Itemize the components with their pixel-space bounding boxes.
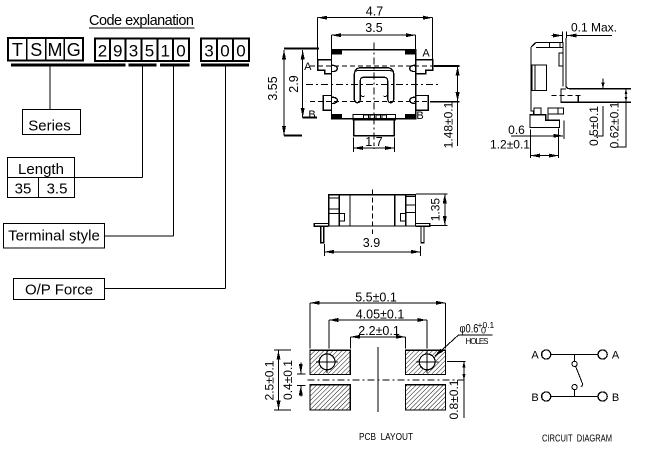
svg-text:4.05±0.1: 4.05±0.1 xyxy=(356,307,405,321)
bent lead vertical xyxy=(566,38,631,89)
wire top A-A xyxy=(551,354,599,356)
dimension 1.48 xyxy=(434,65,460,67)
body xyxy=(329,195,416,226)
svg-text:2.9: 2.9 xyxy=(287,75,301,92)
svg-text:HOLES: HOLES xyxy=(466,337,489,346)
svg-text:0.4±0.1: 0.4±0.1 xyxy=(281,360,295,400)
svg-text:Length: Length xyxy=(18,161,64,178)
svg-text:Series: Series xyxy=(28,118,71,135)
svg-text:B: B xyxy=(416,110,423,122)
svg-text:B: B xyxy=(612,392,619,404)
svg-text:5.5±0.1: 5.5±0.1 xyxy=(355,290,397,304)
circuit diagram xyxy=(531,350,620,445)
svg-text:1.2±0.1: 1.2±0.1 xyxy=(490,138,530,152)
wing right xyxy=(415,224,429,227)
stem xyxy=(354,120,395,136)
contact circle top xyxy=(572,361,577,366)
dimension 0.62 xyxy=(625,89,627,102)
center vertical line xyxy=(377,347,379,412)
terminal circle B left xyxy=(542,392,551,401)
svg-text:0: 0 xyxy=(481,326,486,336)
svg-text:B: B xyxy=(308,109,315,121)
terminal B left xyxy=(323,95,331,110)
svg-text:3.55: 3.55 xyxy=(266,76,280,100)
svg-text:3: 3 xyxy=(129,42,138,61)
corner tab top-right xyxy=(405,50,416,55)
svg-text:A: A xyxy=(304,61,312,73)
svg-text:3.9: 3.9 xyxy=(363,236,380,250)
right block lines xyxy=(394,195,396,226)
svg-text:1.48±0.1: 1.48±0.1 xyxy=(442,101,456,148)
svg-text:5: 5 xyxy=(145,42,154,61)
spring contact top double line xyxy=(356,69,393,72)
code boxes 293510 xyxy=(95,39,189,62)
pad top-right xyxy=(405,350,445,374)
svg-text:2.5±0.1: 2.5±0.1 xyxy=(263,360,277,400)
svg-text:T: T xyxy=(12,40,23,60)
svg-text:0.8±0.1: 0.8±0.1 xyxy=(447,379,461,419)
svg-text:Terminal style: Terminal style xyxy=(8,228,100,245)
terminal A right xyxy=(416,60,433,74)
right detail rects xyxy=(406,196,416,205)
Series box xyxy=(23,110,81,135)
leg left xyxy=(321,226,324,242)
svg-text:2.2±0.1: 2.2±0.1 xyxy=(358,324,400,338)
spring contact outer xyxy=(354,68,394,100)
stem ladder strip xyxy=(353,114,396,119)
connector to Terminal style xyxy=(173,66,175,236)
code boxes TSMG xyxy=(8,38,83,61)
terminal B right xyxy=(416,95,428,110)
left detail rects xyxy=(329,198,340,209)
svg-text:φ0.6: φ0.6 xyxy=(460,324,479,336)
body outline xyxy=(531,43,563,115)
spring inner hook right xyxy=(383,95,387,97)
svg-text:0.5±0.1: 0.5±0.1 xyxy=(587,106,601,146)
dimension 1.35 xyxy=(416,193,448,195)
foot xyxy=(530,115,560,128)
leg right xyxy=(421,226,424,242)
centerline horizontal xyxy=(306,83,441,85)
svg-text:M: M xyxy=(48,40,63,60)
svg-text:3.5: 3.5 xyxy=(365,21,382,35)
hole right xyxy=(419,354,435,370)
dimension 1.7 xyxy=(353,138,355,153)
top tab xyxy=(550,43,561,48)
bottom-left fold xyxy=(534,108,541,115)
svg-text:G: G xyxy=(67,40,81,60)
ladder cell 3 xyxy=(376,115,380,119)
dash line terminal row B xyxy=(310,101,438,103)
Terminal style box xyxy=(4,224,105,249)
svg-text:0: 0 xyxy=(176,42,185,61)
lead block xyxy=(561,89,578,102)
terminal circle A left xyxy=(542,350,551,359)
dimension 0.4 xyxy=(297,373,306,375)
pad top-left xyxy=(310,350,350,374)
svg-text:Code explanation: Code explanation xyxy=(89,13,194,29)
terminal circle A right xyxy=(598,350,607,359)
actuator bump left xyxy=(532,65,547,91)
pcb layout xyxy=(263,290,495,443)
junction stub bottom xyxy=(574,390,576,397)
top view xyxy=(266,5,460,153)
left block lines xyxy=(338,195,340,226)
moving contact arm xyxy=(576,366,583,386)
connector to Series xyxy=(49,66,51,110)
wing left xyxy=(314,224,328,227)
dimension 3.9 xyxy=(324,244,326,256)
svg-text:CIRCUIT DIAGRAM: CIRCUIT DIAGRAM xyxy=(542,433,612,445)
spring foot left xyxy=(354,95,360,103)
centerline vertical xyxy=(373,43,375,150)
svg-text:35: 35 xyxy=(15,181,32,198)
right tab xyxy=(559,53,563,66)
terminal B right bump xyxy=(410,97,416,103)
svg-text:0.1 Max.: 0.1 Max. xyxy=(571,21,617,35)
pad bottom-right xyxy=(405,385,445,410)
corner tab bottom-right xyxy=(405,114,416,119)
Length table xyxy=(8,158,75,198)
ladder cell 2 xyxy=(370,115,374,119)
connector to O/P Force xyxy=(225,66,227,289)
corner tab top-left xyxy=(332,50,343,55)
svg-text:1: 1 xyxy=(160,42,169,61)
dimension 0.5 xyxy=(602,79,604,89)
dimension 3.55 xyxy=(284,48,319,50)
spring foot right xyxy=(388,95,394,103)
svg-text:0.6: 0.6 xyxy=(508,123,525,137)
underlines xyxy=(11,64,126,67)
svg-text:3.5: 3.5 xyxy=(47,181,68,198)
dash line terminal row A xyxy=(310,65,438,67)
svg-text:9: 9 xyxy=(113,42,122,61)
junction stub top xyxy=(574,355,576,362)
svg-text:0: 0 xyxy=(236,42,245,61)
svg-text:2: 2 xyxy=(98,42,107,61)
lead block dash line xyxy=(552,95,582,97)
dimension 0.8 xyxy=(447,360,466,362)
svg-text:PCB LAYOUT: PCB LAYOUT xyxy=(359,431,413,443)
svg-text:1.35: 1.35 xyxy=(428,198,442,222)
body outline xyxy=(332,50,416,119)
front view xyxy=(314,190,447,257)
center dashed line xyxy=(372,190,374,235)
svg-text:A: A xyxy=(422,47,430,59)
center dash-dot line xyxy=(308,379,467,381)
svg-text:4.7: 4.7 xyxy=(366,5,383,19)
terminal A left bump xyxy=(332,65,338,71)
ladder cell 4 xyxy=(382,115,386,119)
code explanation legend xyxy=(4,13,250,300)
terminal A left xyxy=(318,60,331,74)
svg-text:S: S xyxy=(30,40,42,60)
svg-text:O/P Force: O/P Force xyxy=(25,282,93,299)
svg-text:0: 0 xyxy=(220,42,229,61)
svg-text:B: B xyxy=(531,392,538,404)
hole left xyxy=(319,354,335,370)
terminal A right bump xyxy=(410,65,416,71)
terminal circle B right xyxy=(598,392,607,401)
side view xyxy=(490,21,631,159)
connector to Length xyxy=(142,66,144,178)
svg-text:A: A xyxy=(612,350,620,362)
svg-text:1.7: 1.7 xyxy=(365,135,382,149)
leader line to hole xyxy=(435,335,459,356)
corner tab bottom-left xyxy=(332,114,343,119)
ladder cell 1 xyxy=(364,115,369,119)
bottom-right fold xyxy=(548,108,564,114)
lead bottom edge xyxy=(578,101,631,103)
dimension 2.5 xyxy=(274,349,291,351)
spring inner hook left xyxy=(360,95,364,97)
wire bottom B-B xyxy=(551,396,599,398)
dimension 2.9 xyxy=(303,117,317,119)
O/P Force box xyxy=(14,279,105,300)
pad bottom-left xyxy=(310,385,350,410)
svg-text:3: 3 xyxy=(204,42,213,61)
code boxes 300 xyxy=(201,39,249,62)
body inner top line xyxy=(536,47,563,49)
svg-text:0.62±0.1: 0.62±0.1 xyxy=(608,101,622,148)
terminal B left bump xyxy=(332,97,338,103)
svg-text:A: A xyxy=(531,350,539,362)
spring contact inner xyxy=(360,77,387,94)
contact circle bottom xyxy=(572,385,577,390)
